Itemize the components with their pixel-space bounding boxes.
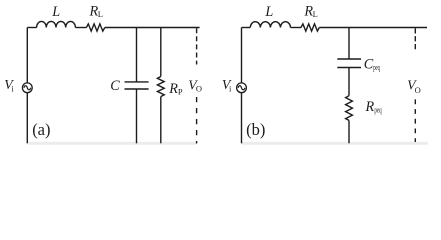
svg-text:L: L bbox=[98, 9, 103, 19]
svg-text:P: P bbox=[178, 86, 183, 96]
wire: (a) top rail between inductor and resistor bbox=[75, 27, 86, 29]
resistor R_L (a): horizontal zigzag bbox=[86, 24, 104, 31]
svg-text:L: L bbox=[313, 9, 318, 19]
resistor R_P (a): vertical zigzag bbox=[157, 77, 164, 97]
svg-text:R: R bbox=[365, 99, 375, 115]
source V_i (b): circle with sine bbox=[237, 83, 247, 93]
wire: (b) top rail from resistor to right end bbox=[319, 27, 427, 29]
svg-text:L: L bbox=[264, 4, 273, 20]
wire: (b) branch stub between capacitor and resistor bbox=[348, 68, 350, 96]
wire: (a) top rail, segment before inductor bbox=[27, 27, 36, 29]
inductor L (a): 4 humps bbox=[37, 21, 76, 27]
wire: (b) bottom rail (faint) bbox=[242, 142, 429, 145]
wire: (b) left vertical from top corner down to source bbox=[241, 28, 243, 83]
svg-text:R: R bbox=[168, 81, 178, 97]
capacitor C (a): two plates bbox=[125, 81, 149, 83]
node V_O (a): dashed output line upper segment bbox=[196, 28, 198, 64]
wire: (a) R_P branch lower stub bbox=[160, 97, 162, 144]
svg-text:C: C bbox=[110, 78, 120, 94]
svg-text:peq: peq bbox=[374, 105, 381, 114]
wire: (a) bottom rail (faint) bbox=[27, 142, 196, 145]
wire: (a) capacitor branch lower stub bbox=[136, 89, 138, 143]
wire: (a) capacitor branch upper stub bbox=[136, 28, 138, 82]
wire: (a) left vertical from top corner down to source bbox=[26, 28, 28, 83]
svg-text:O: O bbox=[196, 84, 202, 94]
svg-text:O: O bbox=[415, 85, 421, 95]
wire: (b) left vertical from source down to bottom rail bbox=[241, 93, 243, 144]
wire: (b) top rail between inductor and resistor bbox=[291, 27, 302, 29]
wire: (b) branch stub from resistor to bottom rail bbox=[348, 120, 350, 143]
wire: (b) top rail, segment before inductor bbox=[242, 27, 251, 29]
resistor R_L (b): horizontal zigzag bbox=[301, 24, 319, 31]
inductor L (b): 4 humps bbox=[250, 22, 290, 28]
svg-text:peq: peq bbox=[373, 63, 380, 72]
wire: (a) R_P branch upper stub bbox=[160, 28, 162, 77]
wire: (b) branch stub from top rail to capacitor bbox=[348, 28, 350, 60]
node V_O (a): dashed output line lower segment bbox=[196, 97, 198, 144]
svg-text:i: i bbox=[229, 84, 232, 94]
svg-text:i: i bbox=[11, 84, 14, 94]
svg-text:(b): (b) bbox=[246, 120, 265, 139]
wire: (a) left vertical from source down to bottom rail bbox=[26, 93, 28, 144]
svg-text:(a): (a) bbox=[32, 120, 50, 139]
capacitor C_peq (b): two plates bbox=[337, 58, 361, 60]
resistor R_peq (b): vertical zigzag bbox=[346, 96, 353, 121]
node V_O (b): dashed output line upper segment bbox=[414, 28, 416, 49]
source V_i (a): circle with sine bbox=[22, 83, 32, 93]
node V_O (b): dashed output line lower segment bbox=[414, 99, 416, 142]
svg-text:L: L bbox=[51, 4, 60, 20]
wire: (a) top rail from resistor to right end bbox=[105, 27, 200, 29]
